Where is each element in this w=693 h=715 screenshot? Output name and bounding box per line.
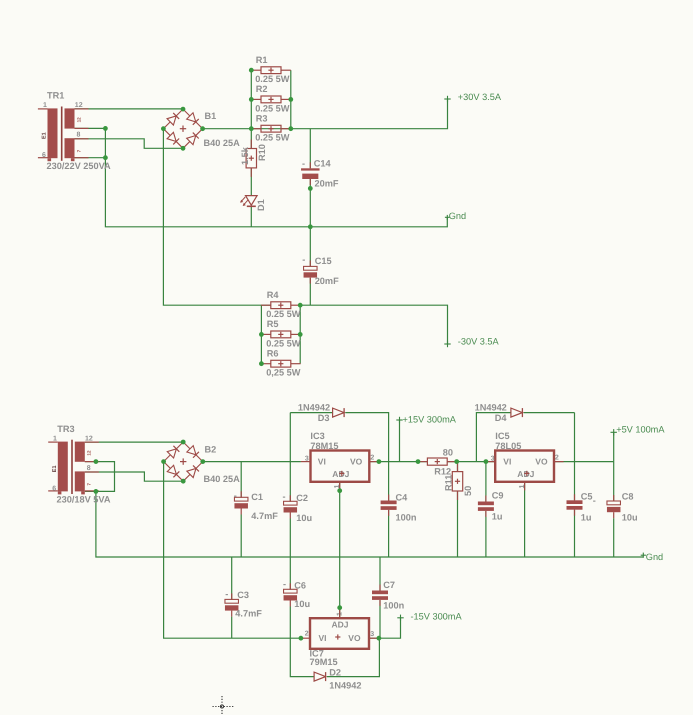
svg-text:6: 6 — [42, 152, 46, 159]
svg-text:3: 3 — [370, 631, 374, 638]
svg-text:230/22V 250VA: 230/22V 250VA — [47, 161, 112, 171]
svg-text:C2: C2 — [296, 493, 308, 503]
svg-text:0.25 5W: 0.25 5W — [266, 309, 301, 319]
svg-text:R3: R3 — [256, 113, 268, 123]
svg-text:R1: R1 — [256, 55, 268, 65]
svg-text:12: 12 — [75, 102, 83, 109]
svg-text:R2: R2 — [256, 84, 268, 94]
svg-text:1N4942: 1N4942 — [329, 681, 361, 691]
svg-text:-: - — [234, 491, 237, 501]
svg-text:230/18V 5VA: 230/18V 5VA — [57, 495, 111, 505]
svg-text:8: 8 — [77, 132, 81, 139]
svg-text:8: 8 — [87, 465, 91, 472]
svg-text:-15V 300mA: -15V 300mA — [411, 611, 463, 621]
svg-text:TR1: TR1 — [47, 91, 64, 101]
svg-text:R4: R4 — [267, 290, 280, 300]
svg-text:20mF: 20mF — [315, 276, 339, 286]
svg-text:+30V 3.5A: +30V 3.5A — [458, 92, 502, 102]
svg-text:D1: D1 — [256, 199, 266, 211]
svg-text:1N4942: 1N4942 — [475, 402, 507, 412]
svg-text:80: 80 — [443, 448, 453, 458]
svg-text:2: 2 — [305, 631, 309, 638]
svg-text:B40 25A: B40 25A — [204, 138, 241, 148]
svg-text:ADJ: ADJ — [332, 469, 349, 479]
svg-text:IC5: IC5 — [495, 431, 509, 441]
svg-text:C4: C4 — [396, 493, 409, 503]
svg-text:Gnd: Gnd — [449, 211, 466, 221]
svg-text:C3: C3 — [237, 590, 249, 600]
svg-text:R6: R6 — [267, 348, 279, 358]
svg-text:1: 1 — [53, 435, 57, 442]
svg-text:C8: C8 — [622, 492, 634, 502]
svg-text:R5: R5 — [267, 319, 279, 329]
svg-text:Gnd: Gnd — [646, 552, 663, 562]
svg-text:0,25 5W: 0,25 5W — [266, 368, 301, 378]
svg-text:TR3: TR3 — [57, 424, 74, 434]
svg-text:C14: C14 — [314, 159, 332, 169]
svg-text:12: 12 — [76, 117, 81, 123]
svg-text:7: 7 — [87, 483, 92, 486]
svg-text:4.7mF: 4.7mF — [251, 511, 278, 521]
svg-text:-: - — [283, 492, 286, 502]
svg-text:1N4942: 1N4942 — [298, 403, 330, 413]
svg-text:C5: C5 — [581, 492, 593, 502]
svg-text:2: 2 — [370, 455, 374, 462]
svg-text:VO: VO — [535, 457, 548, 467]
svg-text:79M15: 79M15 — [310, 657, 338, 667]
svg-text:50: 50 — [463, 486, 473, 496]
svg-text:-: - — [593, 496, 596, 506]
svg-text:100n: 100n — [383, 601, 404, 611]
svg-text:12: 12 — [87, 450, 92, 456]
svg-text:IC3: IC3 — [310, 431, 324, 441]
svg-text:C7: C7 — [383, 580, 395, 590]
svg-text:B1: B1 — [205, 111, 217, 121]
svg-text:VI: VI — [318, 457, 326, 467]
svg-text:0.25 5W: 0.25 5W — [255, 103, 290, 113]
svg-text:-: - — [225, 589, 228, 599]
svg-text:2: 2 — [555, 455, 559, 462]
svg-text:78L05: 78L05 — [495, 441, 521, 451]
svg-text:0.25 5W: 0.25 5W — [255, 74, 290, 84]
svg-text:78M15: 78M15 — [310, 441, 338, 451]
svg-text:1u: 1u — [492, 512, 503, 522]
svg-text:VI: VI — [319, 633, 327, 643]
svg-text:VO: VO — [348, 633, 361, 643]
svg-text:1.5k: 1.5k — [240, 146, 250, 165]
svg-text:D4: D4 — [495, 413, 508, 423]
svg-text:D3: D3 — [318, 413, 330, 423]
svg-text:20mF: 20mF — [315, 179, 339, 189]
svg-text:0.25 5W: 0.25 5W — [266, 338, 301, 348]
svg-text:C6: C6 — [294, 581, 306, 591]
svg-text:1u: 1u — [581, 513, 592, 523]
svg-text:-30V 3.5A: -30V 3.5A — [458, 337, 500, 347]
svg-text:+15V 300mA: +15V 300mA — [403, 415, 457, 425]
svg-text:VO: VO — [350, 457, 363, 467]
svg-text:R11: R11 — [444, 475, 454, 491]
svg-text:+5V 100mA: +5V 100mA — [616, 425, 665, 435]
svg-text:-: - — [302, 159, 305, 169]
svg-text:E1: E1 — [42, 132, 48, 139]
svg-text:VI: VI — [503, 457, 511, 467]
svg-text:-: - — [283, 579, 286, 589]
svg-text:1: 1 — [43, 102, 47, 109]
svg-text:0.25 5W: 0.25 5W — [255, 133, 290, 143]
svg-text:B40 25A: B40 25A — [204, 474, 241, 484]
svg-text:10u: 10u — [294, 599, 310, 609]
svg-text:ADJ: ADJ — [517, 469, 534, 479]
svg-text:-: - — [302, 254, 305, 264]
svg-text:4.7mF: 4.7mF — [235, 609, 262, 619]
svg-text:12: 12 — [85, 435, 93, 442]
svg-text:D2: D2 — [329, 667, 341, 677]
svg-text:6: 6 — [52, 485, 56, 492]
svg-text:ADJ: ADJ — [332, 619, 349, 629]
svg-text:B2: B2 — [205, 445, 217, 455]
svg-text:100n: 100n — [396, 512, 417, 522]
svg-text:10u: 10u — [622, 513, 638, 523]
svg-text:C1: C1 — [251, 492, 263, 502]
svg-text:10u: 10u — [296, 513, 312, 523]
svg-text:R10: R10 — [257, 144, 267, 161]
svg-text:C9: C9 — [492, 491, 504, 501]
svg-text:E1: E1 — [52, 465, 58, 472]
svg-text:7: 7 — [76, 149, 81, 152]
svg-text:C15: C15 — [315, 256, 332, 266]
